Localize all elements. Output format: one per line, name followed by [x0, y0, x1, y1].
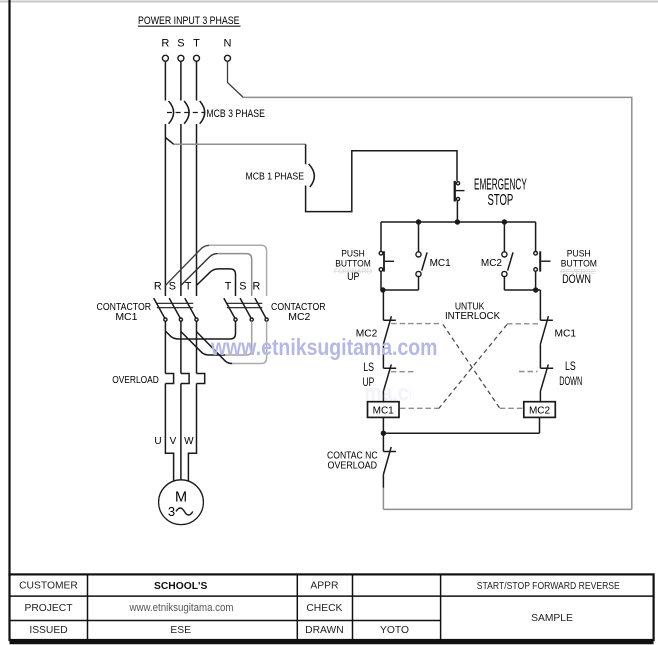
svg-text:CUSTOMER: CUSTOMER — [19, 581, 78, 592]
svg-text:U: U — [154, 436, 161, 447]
svg-text:S: S — [239, 280, 246, 292]
svg-text:YOTO: YOTO — [380, 625, 409, 636]
svg-text:DOWN: DOWN — [559, 374, 582, 388]
svg-text:MCB 3 PHASE: MCB 3 PHASE — [206, 108, 265, 120]
svg-text:V: V — [170, 436, 177, 447]
svg-text:R: R — [161, 38, 169, 50]
svg-text:LS: LS — [363, 360, 374, 374]
svg-text:UP: UP — [347, 271, 359, 283]
svg-text:LS: LS — [565, 359, 576, 373]
svg-text:CHECK: CHECK — [306, 603, 342, 614]
svg-text:MC1: MC1 — [373, 406, 395, 417]
svg-text:PROJECT: PROJECT — [24, 603, 73, 614]
svg-text:S: S — [169, 280, 176, 292]
svg-text:S: S — [177, 38, 184, 50]
svg-text:R: R — [252, 280, 260, 292]
svg-text:ESE: ESE — [170, 625, 191, 636]
svg-text:MC2: MC2 — [529, 406, 551, 417]
svg-text:MC1: MC1 — [555, 328, 577, 339]
svg-text:DRAWN: DRAWN — [305, 625, 344, 636]
svg-text:OVERLOAD: OVERLOAD — [328, 460, 378, 471]
svg-text:APPR: APPR — [310, 581, 338, 592]
svg-text:INTERLOCK: INTERLOCK — [445, 310, 500, 322]
svg-text:ISSUED: ISSUED — [29, 625, 67, 636]
svg-text:MC2: MC2 — [288, 311, 310, 323]
svg-text:MC2: MC2 — [481, 258, 503, 269]
svg-text:T: T — [225, 280, 232, 292]
svg-text:T: T — [185, 280, 192, 292]
svg-text:MCB 1 PHASE: MCB 1 PHASE — [246, 171, 305, 183]
svg-text:www.etniksugitama.com: www.etniksugitama.com — [210, 334, 437, 360]
svg-text:W: W — [184, 436, 194, 447]
svg-text:MC1: MC1 — [430, 258, 452, 269]
svg-text:M: M — [175, 490, 187, 506]
svg-text:DOWN: DOWN — [562, 272, 591, 286]
svg-text:SAMPLE: SAMPLE — [531, 613, 573, 624]
svg-text:N: N — [224, 38, 232, 50]
svg-text:START/STOP FORWARD REVERSE: START/STOP FORWARD REVERSE — [477, 581, 620, 592]
svg-text:T: T — [193, 38, 200, 50]
svg-text:R: R — [154, 280, 162, 292]
svg-text:www.etniksugitama.com: www.etniksugitama.com — [129, 602, 234, 614]
svg-text:STOP: STOP — [488, 192, 514, 209]
svg-text:POWER INPUT 3 PHASE: POWER INPUT 3 PHASE — [138, 15, 240, 27]
svg-text:SCHOOL'S: SCHOOL'S — [154, 581, 207, 592]
svg-text:3: 3 — [168, 504, 175, 519]
svg-text:MC1: MC1 — [115, 311, 137, 323]
svg-text:OVERLOAD: OVERLOAD — [112, 375, 159, 386]
